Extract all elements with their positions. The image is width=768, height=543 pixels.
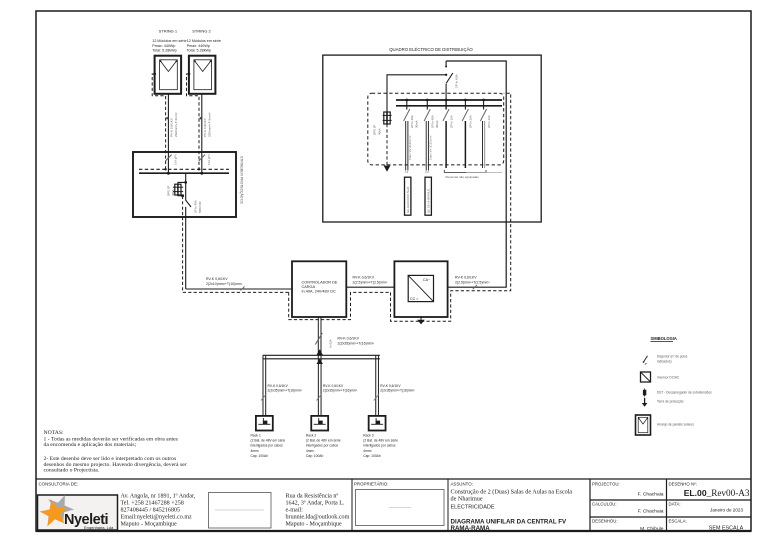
svg-text:C2: C2 bbox=[425, 170, 429, 174]
svg-text:DATA:: DATA: bbox=[669, 502, 681, 507]
svg-text:CONSULTORIA DE:: CONSULTORIA DE: bbox=[39, 482, 79, 487]
svg-text:GE-GERADOR 5kVA: GE-GERADOR 5kVA bbox=[406, 186, 410, 213]
svg-text:SEM ESCALA: SEM ESCALA bbox=[709, 525, 744, 531]
svg-text:30mA: 30mA bbox=[415, 120, 419, 128]
svg-text:RAMA-RAMA: RAMA-RAMA bbox=[451, 525, 491, 532]
svg-text:30mA: 30mA bbox=[435, 120, 439, 128]
svg-text:C1: C1 bbox=[405, 170, 409, 174]
svg-text:P‌max: 440Wp: P‌max: 440Wp bbox=[187, 44, 210, 48]
svg-text:Arranjo de painéis solares: Arranjo de painéis solares bbox=[657, 423, 694, 427]
svg-text:In:40A, 24V/48V DC: In:40A, 24V/48V DC bbox=[302, 290, 336, 294]
svg-text:40kA: 40kA bbox=[171, 189, 175, 196]
svg-text:RV-K 0,6/1KV: RV-K 0,6/1KV bbox=[268, 384, 289, 388]
svg-text:Cap: 100Ah: Cap: 100Ah bbox=[363, 454, 381, 458]
svg-text:P‌max: 440Wp: P‌max: 440Wp bbox=[152, 44, 175, 48]
svg-text:Rack 1: Rack 1 bbox=[251, 433, 261, 437]
svg-text:STRING 1: STRING 1 bbox=[159, 29, 178, 34]
svg-text:RV-K 0,6/1KV: RV-K 0,6/1KV bbox=[338, 337, 360, 341]
svg-text:interligados por cabos: interligados por cabos bbox=[306, 444, 339, 448]
svg-text:(2 Bat. de 48V em série: (2 Bat. de 48V em série bbox=[306, 439, 341, 443]
svg-text:2(2.5)mm²+T(2.5)mm²: 2(2.5)mm²+T(2.5)mm² bbox=[353, 281, 388, 285]
svg-text:2(2.5)mm²+T(2.5)mm²: 2(2.5)mm²+T(2.5)mm² bbox=[455, 281, 490, 285]
svg-text:Total: 5.28kWp: Total: 5.28kWp bbox=[187, 49, 211, 53]
svg-text:2(2x10)mm²+T(10)mm²: 2(2x10)mm²+T(10)mm² bbox=[206, 282, 243, 286]
svg-text:500V DC: 500V DC bbox=[198, 201, 202, 213]
svg-text:SIMBOLOGIA: SIMBOLOGIA bbox=[651, 336, 677, 341]
svg-text:(2 Bat. de 48V em série: (2 Bat. de 48V em série bbox=[251, 439, 286, 443]
svg-text:QE DE NHARIMUE: QE DE NHARIMUE bbox=[426, 188, 430, 213]
svg-text:827408445 / 845216805: 827408445 / 845216805 bbox=[121, 508, 181, 514]
svg-text:DPS 2P: DPS 2P bbox=[373, 125, 377, 135]
svg-text:CALCULOU:: CALCULOU: bbox=[592, 502, 617, 507]
svg-text:Terra de protecção: Terra de protecção bbox=[657, 399, 684, 403]
svg-text:RV-K 0,6/1KV: RV-K 0,6/1KV bbox=[455, 276, 477, 280]
svg-text:DPS 2P: DPS 2P bbox=[167, 186, 171, 196]
svg-text:12 Módulos em série: 12 Módulos em série bbox=[187, 39, 221, 43]
svg-text:Reservas não equipadas: Reservas não equipadas bbox=[446, 175, 480, 179]
svg-text:2(2x35)mm²+T(16)mm²: 2(2x35)mm²+T(16)mm² bbox=[323, 389, 358, 393]
svg-text:F. Chachaia: F. Chachaia bbox=[638, 508, 664, 514]
svg-text:12 Módulos em série: 12 Módulos em série bbox=[152, 39, 186, 43]
svg-text:brunnie.lda@outlook.com: brunnie.lda@outlook.com bbox=[286, 515, 350, 521]
svg-text:DESENHO Nº:: DESENHO Nº: bbox=[669, 482, 697, 487]
svg-text:Disjuntor (nº de polos: Disjuntor (nº de polos bbox=[657, 355, 688, 359]
svg-text:Janeiro de 2023: Janeiro de 2023 bbox=[710, 508, 743, 513]
svg-text:Maputo - Moçambique: Maputo - Moçambique bbox=[286, 522, 342, 528]
svg-text:ASSUNTO:: ASSUNTO: bbox=[451, 482, 473, 487]
svg-text:2G6mm²+T 6mm²: 2G6mm²+T 6mm² bbox=[208, 113, 212, 137]
svg-text:PROJECTOU:: PROJECTOU: bbox=[592, 482, 620, 487]
svg-text:Tel. +258 21467288 +258: Tel. +258 21467288 +258 bbox=[121, 501, 184, 507]
svg-text:2G6mm²+T 6mm²: 2G6mm²+T 6mm² bbox=[174, 113, 178, 137]
svg-text:e-mail:: e-mail: bbox=[286, 508, 304, 514]
svg-text:Rua da Resistência nº: Rua da Resistência nº bbox=[286, 493, 339, 500]
svg-text:Rack 2: Rack 2 bbox=[306, 433, 316, 437]
svg-text:2P In 16A: 2P In 16A bbox=[449, 115, 453, 128]
svg-text:M. Chibule: M. Chibule bbox=[640, 526, 664, 532]
svg-text:Cap: 100Ah: Cap: 100Ah bbox=[251, 454, 269, 458]
svg-text:4mm²: 4mm² bbox=[306, 449, 315, 453]
svg-text:40kA: 40kA bbox=[377, 128, 381, 135]
svg-text:Email:nyeleti@nyeleti.co.mz: Email:nyeleti@nyeleti.co.mz bbox=[121, 515, 193, 521]
svg-text:2(2x35)mm²+T(16)mm²: 2(2x35)mm²+T(16)mm² bbox=[338, 342, 375, 346]
svg-text:4mm²: 4mm² bbox=[251, 449, 260, 453]
svg-text:1642, 3º Andar, Porta L.: 1642, 3º Andar, Porta L. bbox=[286, 500, 345, 507]
svg-text:interligados por cabos: interligados por cabos bbox=[251, 444, 284, 448]
svg-text:QUADRO ELÉCTRICO DE DISTRIBUIÇ: QUADRO ELÉCTRICO DE DISTRIBUIÇÃO bbox=[389, 47, 473, 52]
svg-text:2P In 16A: 2P In 16A bbox=[487, 115, 491, 128]
svg-text:Maputo - Moçambique: Maputo - Moçambique bbox=[121, 522, 177, 528]
svg-text:STRINGBOX PROTECÇÃO DC: STRINGBOX PROTECÇÃO DC bbox=[240, 156, 245, 205]
svg-text:CONTROLADOR DE: CONTROLADOR DE bbox=[302, 280, 338, 284]
svg-text:ESCALA:: ESCALA: bbox=[669, 519, 687, 524]
svg-text:DST - Descarregador de sobrete: DST - Descarregador de sobretensões bbox=[657, 391, 712, 395]
svg-text:16A gPV: 16A gPV bbox=[207, 154, 211, 165]
svg-text:da encomenda e aplicação dos m: da encomenda e aplicação dos materiais; bbox=[44, 442, 137, 448]
svg-text:RV-K 0,6/1KV: RV-K 0,6/1KV bbox=[353, 276, 375, 280]
svg-text:STRING 2: STRING 2 bbox=[192, 29, 211, 34]
svg-text:2P In 40A: 2P In 40A bbox=[431, 115, 435, 128]
svg-text:Engenharia, Lda: Engenharia, Lda bbox=[84, 525, 114, 530]
svg-text:CA ~: CA ~ bbox=[423, 278, 430, 282]
svg-text:F. Chachaia: F. Chachaia bbox=[638, 491, 664, 497]
svg-text:RV-K 0,6/1KV: RV-K 0,6/1KV bbox=[323, 384, 344, 388]
svg-text:RV-K 0,6/1KV: RV-K 0,6/1KV bbox=[380, 384, 401, 388]
svg-text:PV-K 0,6/1KV: PV-K 0,6/1KV bbox=[170, 117, 174, 137]
svg-text:EL.00_Rev00-A3: EL.00_Rev00-A3 bbox=[684, 488, 750, 498]
svg-text:NOTAS:: NOTAS: bbox=[44, 430, 65, 436]
svg-text:Rack 3: Rack 3 bbox=[363, 433, 373, 437]
svg-text:2(2x35)mm²+T(16)mm²: 2(2x35)mm²+T(16)mm² bbox=[380, 389, 415, 393]
svg-text:RV-K 0,6/1KV: RV-K 0,6/1KV bbox=[206, 277, 228, 281]
svg-text:16A gPV: 16A gPV bbox=[174, 154, 178, 165]
svg-text:Av. Angola, nr 1891, 1º Andar,: Av. Angola, nr 1891, 1º Andar, bbox=[121, 493, 196, 500]
svg-text:In 63A: In 63A bbox=[329, 339, 333, 348]
svg-text:PV-K 0,6/1KV: PV-K 0,6/1KV bbox=[203, 117, 207, 137]
svg-text:Inversor DC/AC: Inversor DC/AC bbox=[657, 376, 680, 380]
svg-text:DESENHOU:: DESENHOU: bbox=[592, 519, 618, 524]
svg-text:2P In 63A: 2P In 63A bbox=[455, 74, 459, 88]
svg-text:2P In 40A: 2P In 40A bbox=[193, 200, 197, 213]
svg-text:Cap: 100Ah: Cap: 100Ah bbox=[306, 454, 324, 458]
svg-text:CC =: CC = bbox=[410, 297, 418, 301]
svg-text:Cabo VV 3G10mm²: Cabo VV 3G10mm² bbox=[408, 136, 412, 160]
svg-text:Total: 5.28kWp: Total: 5.28kWp bbox=[152, 49, 176, 53]
svg-text:indicados): indicados) bbox=[657, 359, 672, 363]
svg-text:ELECTRICIDADE: ELECTRICIDADE bbox=[451, 505, 495, 511]
svg-text:CARGA: CARGA bbox=[302, 285, 316, 289]
svg-text:PROPRIETÁRIO:: PROPRIETÁRIO: bbox=[354, 482, 388, 487]
svg-text:consultado o Projectista.: consultado o Projectista. bbox=[44, 468, 100, 474]
svg-text:Cabo VV 3G10mm²: Cabo VV 3G10mm² bbox=[429, 136, 433, 160]
svg-text:4mm²: 4mm² bbox=[363, 449, 372, 453]
svg-text:2P In 16A: 2P In 16A bbox=[469, 115, 473, 128]
svg-text:(2 Bat. de 48V em série: (2 Bat. de 48V em série bbox=[363, 439, 398, 443]
svg-text:de Nharimue: de Nharimue bbox=[451, 495, 483, 502]
svg-text:2(2x35)mm²+T(16)mm²: 2(2x35)mm²+T(16)mm² bbox=[268, 389, 303, 393]
svg-text:2P In 40A: 2P In 40A bbox=[410, 115, 414, 128]
svg-text:interligados por cabos: interligados por cabos bbox=[363, 444, 396, 448]
